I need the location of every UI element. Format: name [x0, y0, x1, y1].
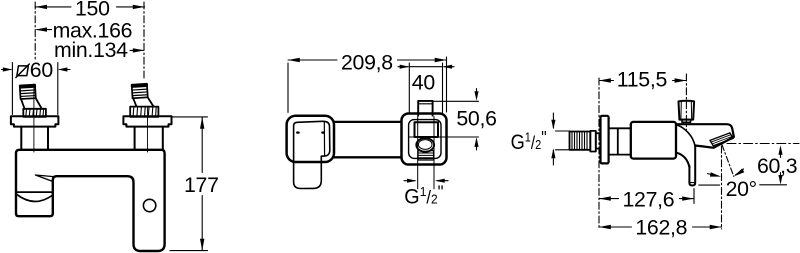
wall centerline [598, 78, 600, 229]
spout tip wedge [35, 175, 53, 181]
spout outlet horizontal centerline [727, 143, 799, 145]
G1/2 extension lines [418, 117, 434, 189]
dim 127,6 arrows [599, 196, 694, 200]
diverter knob (side) [679, 101, 695, 120]
dim 162,8 arrows [599, 225, 722, 229]
left leg column [21, 127, 48, 149]
spout tip vertical centerline [721, 146, 723, 229]
diverter hole circle [143, 199, 155, 211]
left inlet connector [21, 98, 42, 108]
escutcheon (side) [601, 116, 609, 164]
G1/2 arrows (outside) [404, 180, 415, 182]
handle front curve [676, 153, 690, 168]
dim dia60 arrows (outside) [2, 69, 12, 71]
outlet block (top view) [402, 114, 447, 165]
body bar (top view) [334, 122, 402, 157]
main body (cartridge housing) [631, 122, 676, 159]
dim 177 line [201, 117, 203, 251]
dim 209,8 right extension [446, 57, 448, 112]
spout underside line [16, 191, 53, 193]
svg-text:G1/2": G1/2" [404, 182, 443, 208]
dim 177 extension lines [170, 117, 208, 251]
outlet block inner contour [409, 120, 441, 159]
right leg thin centerline [147, 108, 149, 152]
left inlet thread [20, 85, 36, 100]
dim 209,8 left extension [287, 63, 289, 113]
lever (side) [689, 145, 695, 185]
inlet thread (side) [570, 132, 591, 150]
diverter knob centerline [685, 74, 687, 130]
diameter symbol [17, 66, 28, 76]
svg-text:G1/2": G1/2" [511, 128, 547, 154]
dim 50,6 extensions [409, 101, 479, 137]
outlet ellipse G1/2 [416, 138, 434, 152]
20deg baseline left segment [699, 184, 720, 186]
lever tip extension line [693, 189, 695, 204]
dim 40 extension right [442, 63, 444, 113]
G1/2 arrows right view [552, 113, 554, 128]
angle arrow at vertical line [708, 174, 719, 176]
outlet inner rectangle [415, 122, 439, 137]
right union nut (hatched) [130, 107, 158, 117]
thread reference lines [556, 131, 570, 150]
angle arrow at slanted line [736, 169, 744, 175]
outlet ellipse inner rim [418, 140, 432, 150]
svg-text:60,3: 60,3 [757, 154, 797, 178]
spout root curve [677, 125, 696, 147]
dim 127,6 line [599, 198, 694, 200]
svg-text:162,8: 162,8 [635, 216, 687, 240]
svg-text:127,6: 127,6 [623, 188, 675, 212]
dim 60,3 arrows [780, 148, 782, 158]
dim 115,5 line [599, 80, 686, 82]
right leg column [135, 127, 163, 149]
left escutcheon flange [11, 116, 59, 126]
svg-text:60: 60 [30, 58, 54, 82]
svg-text:177: 177 [184, 173, 219, 197]
svg-text:20°: 20° [726, 177, 757, 201]
dim 150 arrows [35, 5, 144, 9]
right inlet thread [132, 84, 148, 99]
handle escutcheon block (top view) [287, 116, 334, 162]
lever end cap line [323, 122, 325, 157]
connector ring 1 [590, 131, 596, 152]
svg-text:115,5: 115,5 [617, 68, 667, 92]
dim 40 extension left [408, 63, 410, 113]
dim 209,8 arrows [288, 58, 447, 62]
20 degree slanted centerline [722, 145, 734, 177]
dim max.166 arrow [37, 29, 52, 31]
svg-text:50,6: 50,6 [456, 106, 496, 130]
spout underside arc [16, 194, 53, 202]
right escutcheon flange [123, 116, 171, 126]
dim 40 line and arrows [409, 66, 442, 68]
aerator grille [710, 133, 733, 146]
outlet thread hatch block [418, 151, 434, 160]
left leg thin centerline [33, 84, 35, 152]
svg-text:209,8: 209,8 [341, 50, 393, 74]
connector ring 2 [596, 133, 601, 148]
20deg baseline right segment [760, 184, 787, 186]
dim 150 line [35, 6, 144, 8]
centerline left inlet [34, 2, 36, 59]
handle screw dots [296, 131, 300, 133]
dim 209,8 line [288, 59, 447, 61]
wall connection stub [418, 101, 432, 116]
lever handle (top view) [294, 121, 330, 188]
svg-text:40: 40 [412, 70, 436, 94]
left union nut (hatched) [23, 109, 46, 117]
dim 50,6 arrows (outside) [476, 89, 478, 97]
dim 177 arrows [200, 117, 204, 251]
dim min.134 arrow [130, 49, 143, 51]
centerline right inlet [143, 2, 145, 79]
svg-text:min.134: min.134 [54, 38, 128, 62]
right inlet connector [133, 98, 154, 107]
knob stem [682, 120, 691, 123]
dim 115,5 arrows [599, 78, 686, 82]
faucet body outline [16, 150, 165, 251]
dim dia60 extension lines [12, 63, 57, 115]
neck [609, 128, 631, 154]
dim 162,8 line [599, 226, 722, 228]
spout (side) [676, 124, 734, 148]
